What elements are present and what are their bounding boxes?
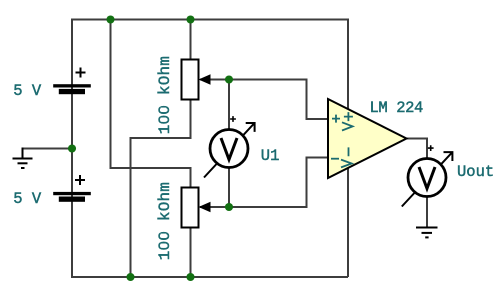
voltmeter Uout <box>402 145 453 206</box>
svg-text:100 kOhm: 100 kOhm <box>156 182 174 260</box>
svg-text:U1: U1 <box>261 147 280 165</box>
node junction R2 wiper / U1 <box>225 203 233 211</box>
node junction battery midpoint / ground <box>68 144 76 152</box>
wire U1 top lead <box>228 80 230 131</box>
wire Uout to ground <box>426 196 428 228</box>
wire R1 bottom to bottom rail <box>131 99 191 277</box>
op-amp V- pin label <box>341 147 352 167</box>
svg-text:Uout: Uout <box>457 163 494 181</box>
potentiometer R2 100 kOhm <box>182 188 211 228</box>
wire left vertical branch <box>71 19 73 278</box>
wire V- supply riser <box>347 165 349 277</box>
svg-text:5 V: 5 V <box>13 82 42 100</box>
op-amp - input marker <box>331 158 339 160</box>
op-amp U2 LM 224 <box>328 99 407 178</box>
node junction bottom rail / R1 return <box>126 273 134 281</box>
battery V1 5V (top) <box>53 68 91 95</box>
wire top rail <box>71 19 348 21</box>
wire V+ supply drop <box>347 19 349 111</box>
ground (left, battery midpoint) <box>13 148 33 169</box>
wire R1 top <box>190 20 192 61</box>
potentiometer R1 100 kOhm <box>182 60 211 100</box>
ground (right, Uout) <box>416 228 438 238</box>
op-amp + input marker <box>332 115 340 123</box>
node junction R1 wiper / U1 <box>225 75 233 83</box>
battery V2 5V (bottom) <box>53 175 91 202</box>
wire node A to R2 top <box>111 19 191 190</box>
node junction top rail / R1 top <box>186 15 194 23</box>
wire U1 bottom lead <box>228 167 230 207</box>
svg-text:LM 224: LM 224 <box>370 99 424 117</box>
wire op-amp output to Uout <box>406 139 427 160</box>
wire ground tap <box>23 148 73 150</box>
svg-text:5 V: 5 V <box>13 190 42 208</box>
wire R1 wiper to op-amp + input <box>200 80 328 120</box>
voltmeter U1 <box>204 116 255 177</box>
op-amp V+ pin label <box>342 112 353 130</box>
svg-text:100 kOhm: 100 kOhm <box>156 56 174 134</box>
node junction bottom rail / R2 bottom <box>186 273 194 281</box>
node A junction (top rail / R2 feed) <box>106 15 114 23</box>
wire bottom rail <box>71 276 348 278</box>
wire R2 bottom <box>190 227 192 277</box>
wire R2 wiper to op-amp - input <box>200 158 328 208</box>
